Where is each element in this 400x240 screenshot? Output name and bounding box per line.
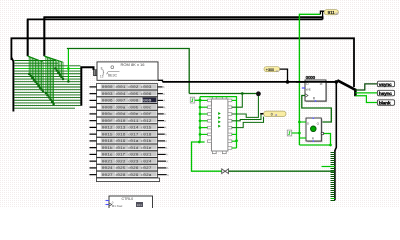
wire dark stair4	[232, 117, 264, 128]
wire data bus	[163, 81, 337, 83]
svg-text:001b: 001b	[102, 146, 114, 151]
svg-text:A: A	[165, 126, 167, 130]
svg-text:A: A	[165, 132, 167, 136]
wire bus top A	[44, 17, 322, 56]
svg-text:A: A	[163, 92, 165, 96]
svg-text:c00d: c00d	[115, 112, 126, 117]
junction clk2	[298, 132, 301, 135]
svg-text:0027: 0027	[102, 174, 114, 178]
junction FF D	[298, 121, 301, 124]
svg-text:c00a: c00a	[115, 106, 127, 110]
wire clk overlay over chip	[209, 96, 228, 98]
svg-text:0024: 0024	[102, 167, 114, 171]
wire FF clk stub	[299, 137, 306, 139]
svg-text:c022: c022	[115, 160, 127, 164]
wire blank leg	[355, 96, 377, 103]
wire bowtie dark line	[229, 170, 334, 172]
splitter SP1 spine	[11, 58, 13, 112]
svg-text:c014: c014	[128, 127, 140, 131]
ROM row 001e	[90, 151, 169, 158]
svg-text:001e: 001e	[102, 154, 114, 158]
svg-text:000c: 000c	[102, 113, 114, 117]
wire dark stair1	[232, 94, 243, 108]
svg-text:c016: c016	[115, 133, 127, 137]
wire register clk loop	[302, 96, 332, 123]
probe P300	[264, 67, 280, 73]
svg-text:blank: blank	[379, 101, 391, 107]
splitter SP2 legs	[28, 56, 43, 92]
wire clk1 out	[195, 99, 200, 101]
svg-text:911: 911	[328, 10, 336, 15]
svg-text:A: A	[164, 105, 166, 109]
wire chip right bottom stubs	[232, 134, 237, 148]
svg-text:A: A	[166, 146, 168, 150]
output hsync	[377, 90, 394, 97]
pin nub FF top	[313, 117, 315, 119]
splitter SP2 spine	[27, 19, 29, 56]
svg-text:0009: 0009	[102, 106, 114, 110]
svg-text:0006: 0006	[102, 100, 114, 104]
ROM address pin blob	[93, 69, 99, 76]
svg-text:101: 101	[137, 203, 142, 207]
junction dots SP3	[45, 67, 65, 105]
svg-text:000f: 000f	[102, 119, 114, 124]
svg-text:vsync: vsync	[379, 83, 392, 88]
svg-text:A: A	[165, 139, 167, 143]
ROM row 0000	[90, 84, 165, 91]
ROM row 000c	[90, 111, 167, 118]
svg-text:c01c: c01c	[115, 147, 127, 151]
chip U2	[208, 97, 232, 154]
node big black dot	[256, 91, 261, 96]
probe 911	[324, 10, 338, 16]
svg-text:c00b: c00b	[128, 105, 140, 110]
ROM U1 header	[97, 62, 158, 80]
svg-text:0015: 0015	[102, 133, 114, 137]
svg-text:c002: c002	[128, 86, 140, 90]
wire probe0 stub	[261, 113, 264, 116]
wire probe corner	[320, 11, 324, 14]
svg-text:A: A	[163, 85, 165, 89]
wire chip right pin1	[232, 99, 237, 101]
junction chip right	[235, 139, 238, 142]
junction bus corner	[335, 80, 339, 84]
clock CLK2	[287, 130, 291, 136]
svg-text:A: A	[166, 159, 168, 163]
svg-text:c010: c010	[115, 120, 127, 124]
ROM row 0003	[90, 90, 166, 97]
svg-text:0021: 0021	[102, 160, 114, 164]
splitter SP3 legs	[44, 56, 63, 104]
ROM row 0006	[90, 97, 166, 104]
svg-text:c029: c029	[128, 174, 140, 178]
svg-text:A: A	[167, 166, 169, 170]
svg-text:c007: c007	[115, 100, 127, 104]
svg-text:M1 Xsel: M1 Xsel	[112, 204, 123, 208]
wire bus mid	[11, 38, 354, 87]
svg-text:c023: c023	[128, 160, 140, 164]
wire probe911 stub	[323, 11, 325, 19]
svg-text:c00e: c00e	[128, 113, 140, 117]
wire FF Qbar down	[324, 134, 331, 146]
svg-text:A: A	[163, 99, 165, 103]
wire green hsync-probe	[299, 13, 320, 15]
svg-text:c004: c004	[115, 93, 127, 97]
ROM row 0012	[90, 124, 167, 131]
junction dots chip left	[198, 106, 201, 143]
register R1	[305, 75, 327, 102]
wire dark stair2	[232, 96, 259, 117]
svg-text:A: A	[164, 112, 166, 116]
svg-text:c028: c028	[115, 174, 127, 178]
wire bus top B	[28, 19, 323, 56]
ROM row 0015	[90, 131, 168, 138]
wire chip left stubs	[200, 100, 208, 134]
svg-text:WE: WE	[306, 88, 311, 92]
wire bus down right	[335, 82, 336, 200]
wire clk2 vertical	[298, 14, 300, 145]
wire dark net horiz	[189, 93, 256, 95]
pin WE blue	[302, 87, 305, 89]
ROM row 0027	[90, 171, 169, 178]
svg-text:hsync: hsync	[379, 91, 393, 97]
svg-text:0012: 0012	[102, 127, 114, 131]
wire hsync leg	[355, 92, 377, 94]
ROM row 001b	[90, 144, 168, 151]
svg-text:8E3C: 8E3C	[108, 73, 118, 77]
wire clk top run over chip	[200, 97, 237, 148]
svg-text:c005: c005	[128, 93, 140, 97]
wire bus overlay	[296, 81, 336, 83]
splitter SP6 spine	[337, 80, 355, 96]
wire clk2 out	[292, 132, 300, 134]
clock CLK1	[190, 97, 194, 103]
wire vsync leg	[355, 84, 377, 90]
pin nub register bottom	[315, 100, 317, 102]
splitter SP5 legs	[330, 153, 335, 201]
svg-text:c011: c011	[128, 120, 140, 124]
junction dark	[241, 92, 244, 95]
svg-text:0000: 0000	[102, 86, 114, 90]
ROM row 0021	[90, 158, 169, 165]
svg-text:0000: 0000	[306, 75, 316, 80]
svg-text:c017: c017	[128, 133, 140, 137]
output blank	[377, 100, 394, 107]
wire clk vertical feed	[199, 97, 201, 142]
svg-text:A: A	[164, 119, 166, 123]
ROM row 000f	[90, 117, 167, 124]
svg-text:0: 0	[271, 112, 273, 116]
wire dark stair3	[232, 115, 261, 121]
svg-text:+300: +300	[266, 68, 274, 72]
output vsync	[377, 81, 394, 88]
wire bright stub	[322, 166, 335, 168]
wire ROM data stub	[158, 80, 163, 82]
wire probe P300 drop	[280, 69, 288, 82]
junction loop	[67, 67, 70, 70]
junction U	[329, 144, 332, 147]
ROM row 0024	[90, 165, 169, 172]
svg-text:c001: c001	[115, 86, 127, 90]
probe P0	[264, 111, 286, 117]
pin nub FF bottom	[313, 140, 315, 142]
ROM row 0018	[90, 138, 168, 145]
svg-text:c01f: c01f	[115, 153, 127, 158]
junction dots SP2	[28, 73, 44, 93]
splitter SP1 legs bundle	[14, 61, 80, 109]
junction bus dot	[286, 80, 290, 84]
buffer bowtie	[222, 169, 229, 174]
svg-text:ROM 8K x 16: ROM 8K x 16	[121, 62, 146, 67]
FF Qbar bubble	[321, 132, 324, 135]
svg-text:c019: c019	[115, 140, 127, 144]
splitter SP4 spine to ROM	[81, 67, 93, 106]
svg-text:c013: c013	[115, 127, 127, 131]
wire chip bottom left run	[192, 142, 222, 171]
ROM cell separators	[116, 84, 142, 176]
splitter SP3 spine	[43, 17, 45, 56]
svg-text:c01a: c01a	[128, 140, 140, 144]
svg-text:c008: c008	[128, 100, 140, 104]
junction clk1	[199, 99, 202, 102]
svg-text:CTRL0: CTRL0	[122, 197, 134, 201]
ROM bottom cap	[97, 178, 160, 182]
wire FF D stub	[299, 121, 306, 123]
svg-text:0003: 0003	[102, 93, 114, 97]
svg-text:c025: c025	[115, 167, 127, 171]
wire green U bottom	[299, 144, 330, 146]
svg-text:A: A	[167, 173, 169, 177]
flip-flop FF1	[306, 118, 323, 142]
ROM row 0009	[90, 104, 166, 111]
svg-text:c020: c020	[128, 154, 140, 158]
svg-text:c026: c026	[128, 167, 140, 171]
wire green loop top	[67, 49, 189, 94]
svg-text:A: A	[166, 153, 168, 157]
controller CTRL box	[106, 196, 153, 210]
svg-text:0018: 0018	[102, 140, 114, 144]
